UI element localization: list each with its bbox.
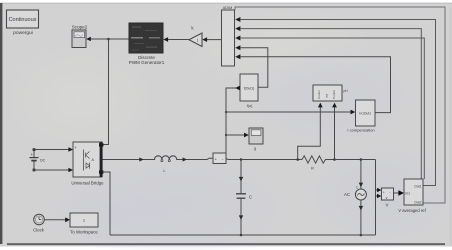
- svg-text:In1: In1: [405, 191, 410, 195]
- wire R to AC/V branch: [335, 159, 376, 161]
- svg-text:DC: DC: [40, 158, 46, 162]
- svg-text:f(u): f(u): [247, 103, 254, 108]
- To Workspace block: [70, 213, 98, 227]
- mux input arrowheads: [235, 17, 240, 22]
- wire current signal to scope: [226, 134, 245, 136]
- svg-text:V averaged ref: V averaged ref: [398, 208, 426, 213]
- svg-text:g: g: [254, 146, 256, 151]
- svg-text:1: 1: [356, 186, 358, 190]
- svg-text:AC: AC: [344, 192, 350, 197]
- powergui block: [7, 10, 39, 28]
- main dc-link wire from bridge A: [103, 159, 148, 161]
- svg-text:Conn1: Conn1: [317, 90, 321, 99]
- svg-text:out: out: [325, 94, 329, 98]
- arrow down on AC bottom wire: [359, 206, 363, 211]
- arrowhead into bridge input 1: [68, 147, 73, 152]
- stub to V minus: [376, 195, 379, 197]
- arrowhead into Scope2: [86, 37, 91, 42]
- branch arrow on wire: [139, 157, 143, 161]
- PWM generator block (dark): [129, 23, 163, 53]
- node capacitor branch: [240, 158, 243, 161]
- svg-text:C: C: [249, 194, 252, 199]
- svg-text:Universal Bridge: Universal Bridge: [71, 180, 104, 185]
- node AC branch: [360, 158, 363, 161]
- frame left dark band: [0, 3, 2, 244]
- Clock: [34, 214, 45, 225]
- bottom rail: [110, 234, 376, 236]
- mux block: [222, 6, 235, 66]
- svg-text:Out2: Out2: [414, 201, 421, 205]
- AC source branch: [360, 160, 362, 236]
- svg-text:I compensation: I compensation: [347, 128, 374, 133]
- wire current measurement to R: [226, 158, 302, 159]
- arrow down into AC: [359, 183, 363, 188]
- svg-text:Clock: Clock: [33, 228, 45, 233]
- arrowhead into gain: [202, 37, 207, 42]
- svg-text:f(Out1): f(Out1): [244, 87, 255, 91]
- feedback wire in2: [240, 29, 421, 179]
- node on current signal line: [225, 111, 227, 113]
- frame top line: [2, 3, 452, 4]
- node before R: [296, 158, 299, 161]
- wire PWM out to Scope2: [90, 38, 129, 40]
- arrowhead into f(u): [235, 86, 240, 91]
- svg-text:+: +: [383, 191, 385, 195]
- node scope branch: [225, 134, 227, 136]
- bridge minus return wire to bottom rail: [103, 172, 111, 235]
- capacitor C branch: [236, 160, 246, 236]
- wire mux to gain: [206, 39, 222, 41]
- svg-text:In1Out1: In1Out1: [359, 112, 371, 116]
- wire gain to PWM: [167, 39, 189, 41]
- svg-text:Continuous: Continuous: [9, 17, 37, 23]
- feedback wire in5 (from I compensation out): [240, 57, 391, 113]
- node junction PWM-bridge-g: [107, 38, 110, 41]
- fcn block f(u): [240, 74, 258, 101]
- arrowhead into subsystem In1: [398, 190, 404, 196]
- wire clock to workspace: [44, 219, 66, 221]
- V averaged subsystem: [404, 179, 423, 205]
- wire Conn2 to node after R: [334, 104, 336, 160]
- svg-text:pH: pH: [344, 89, 349, 93]
- frame right faint line: [450, 8, 451, 244]
- inductor L: [147, 156, 182, 162]
- wire DC- to bridge: [34, 169, 69, 171]
- svg-text:PWM Generator1: PWM Generator1: [129, 60, 165, 65]
- node C on rail: [240, 234, 243, 237]
- current measurement block: [213, 153, 226, 164]
- feedback wire in3: [240, 38, 424, 179]
- arrowhead into To Workspace: [65, 217, 70, 222]
- arrowhead up into Conn1: [318, 103, 323, 108]
- svg-text:Conn2: Conn2: [332, 90, 336, 99]
- svg-text:Out1: Out1: [414, 184, 421, 188]
- measurement subsystem (Conn1 out Conn2): [313, 85, 342, 101]
- svg-text:v: v: [386, 196, 388, 200]
- DC source (battery): [30, 148, 46, 171]
- stub to V plus: [376, 189, 379, 191]
- scope Scope2: [72, 25, 88, 48]
- svg-text:ADIM: ADIM: [223, 6, 233, 10]
- node AC on rail: [360, 234, 363, 237]
- node after R: [333, 158, 336, 161]
- svg-text:powergui: powergui: [13, 30, 32, 36]
- svg-text:1: 1: [197, 39, 199, 43]
- frame bottom line: [7, 243, 445, 245]
- arrowhead into I compensation: [351, 110, 356, 115]
- AC source: [344, 186, 366, 201]
- gain k (triangle, points left): [189, 26, 202, 47]
- feedback wire in4 (from f(u) out): [240, 48, 268, 88]
- svg-text:To Workspace: To Workspace: [70, 230, 98, 235]
- I compensation block: [356, 100, 376, 126]
- wire V out to subsystem: [394, 192, 400, 194]
- wire current signal to I compensation: [226, 111, 352, 113]
- wire current signal to f(u): [226, 88, 236, 153]
- feedback wire top (Out2 to mux top): [235, 7, 445, 203]
- V measurement branch: [375, 160, 377, 236]
- voltage measurement block V: [382, 188, 394, 200]
- svg-text:Scope2: Scope2: [72, 25, 88, 30]
- resistor R: [302, 156, 335, 163]
- wire DC+ to bridge: [34, 149, 69, 151]
- arrowhead up into Conn2: [332, 103, 337, 108]
- branch arrow on wire after L: [183, 157, 187, 161]
- wire down to bridge gate g: [103, 39, 109, 145]
- scope (small): [249, 128, 263, 144]
- wire Conn1 to node on R wire: [298, 104, 321, 160]
- arrowhead into scope: [244, 133, 249, 138]
- svg-text:+: +: [31, 152, 34, 157]
- svg-text:R: R: [311, 167, 314, 171]
- wire L to current measurement: [183, 158, 213, 159]
- Universal Bridge block: [73, 142, 103, 177]
- arrowhead into bridge input 2: [68, 168, 73, 173]
- svg-text:V: V: [386, 203, 389, 208]
- feedback wire in1 (Out1): [240, 20, 436, 186]
- arrowhead into PWM: [163, 37, 168, 42]
